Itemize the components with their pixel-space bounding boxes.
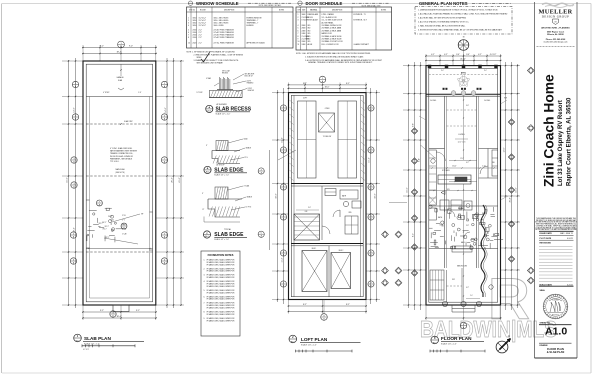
svg-text:1/2" EXP: 1/2" EXP bbox=[197, 92, 203, 94]
svg-text:2/0 PANEL SWING DOOR: 2/0 PANEL SWING DOOR bbox=[322, 24, 343, 27]
svg-text:mueller@muellerdesign.com: mueller@muellerdesign.com bbox=[544, 41, 568, 44]
svg-text:1: 1 bbox=[298, 14, 299, 16]
svg-text:BED 1: BED 1 bbox=[312, 248, 317, 250]
svg-text:BED 2: BED 2 bbox=[339, 250, 344, 252]
svg-text:ISSUE DATE: ISSUE DATE bbox=[540, 232, 553, 235]
svg-text:LOFT PLAN: LOFT PLAN bbox=[301, 337, 328, 342]
svg-text:MAIN SLAB: MAIN SLAB bbox=[115, 168, 125, 171]
svg-text:5. WALL INSULATION SHALL BE R: 5. WALL INSULATION SHALL BE R-13 IN EXTE… bbox=[418, 24, 465, 27]
svg-text:2: 2 bbox=[298, 17, 299, 19]
svg-text:6: 6 bbox=[298, 30, 299, 32]
svg-text:A1.0: A1.0 bbox=[206, 171, 210, 174]
svg-text:IF SAND DOES, SLAB LOWER FOR: IF SAND DOES, SLAB LOWER FOR bbox=[207, 319, 236, 322]
svg-text:FOUNDATION NOTES: FOUNDATION NOTES bbox=[208, 254, 234, 257]
svg-text:Zini Coach Home: Zini Coach Home bbox=[542, 74, 557, 187]
svg-text:IF SAND DOES, SLAB LOWER FOR: IF SAND DOES, SLAB LOWER FOR bbox=[207, 285, 236, 288]
svg-text:FLOOR PLAN: FLOOR PLAN bbox=[441, 336, 472, 341]
svg-text:SCALE: 1/2" = 1'-0": SCALE: 1/2" = 1'-0" bbox=[214, 173, 229, 176]
svg-text:BEDROOM: BEDROOM bbox=[457, 266, 467, 268]
svg-text:TYP. U.N.O.: TYP. U.N.O. bbox=[110, 161, 120, 163]
svg-text:SLAB EDGE: SLAB EDGE bbox=[214, 232, 244, 238]
svg-text:IF SAND DOES, SLAB LOWER FOR: IF SAND DOES, SLAB LOWER FOR bbox=[207, 263, 236, 266]
svg-text:3'-8": 3'-8" bbox=[466, 225, 469, 227]
svg-text:SHEET NO.: SHEET NO. bbox=[540, 322, 552, 324]
svg-text:ALUM: ALUM bbox=[308, 43, 313, 46]
svg-text:8'-2": 8'-2" bbox=[413, 233, 415, 237]
svg-text:26'-4": 26'-4" bbox=[172, 177, 174, 182]
svg-text:IF SAND DOES, SLAB LOWER FOR: IF SAND DOES, SLAB LOWER FOR bbox=[207, 291, 236, 294]
svg-text:9'-0": 9'-0" bbox=[129, 46, 133, 48]
svg-text:4'-2": 4'-2" bbox=[478, 54, 482, 56]
svg-text:4" STEP: 4" STEP bbox=[103, 92, 110, 94]
svg-text:14'-6": 14'-6" bbox=[74, 107, 76, 112]
svg-text:3'-6": 3'-6" bbox=[466, 54, 470, 56]
svg-text:REVISIONS: REVISIONS bbox=[540, 242, 552, 244]
svg-text:2" V: 2" V bbox=[122, 220, 125, 222]
svg-text:NOTE: 1. VIF WINDOW LIST APP: NOTE: 1. VIF WINDOW LIST APPROXIMATE, VI… bbox=[187, 50, 236, 53]
svg-text:4: 4 bbox=[298, 25, 299, 27]
svg-text:IF SAND DOES, SLAB LOWER FOR: IF SAND DOES, SLAB LOWER FOR bbox=[207, 276, 236, 279]
svg-text:11'-4": 11'-4" bbox=[282, 257, 284, 262]
svg-text:2068: 2068 bbox=[302, 41, 306, 43]
svg-text:9'-2": 9'-2" bbox=[100, 46, 104, 48]
svg-text:DESCRIPTION: DESCRIPTION bbox=[332, 9, 342, 11]
svg-text:4. ALL STUD SPACING, SYSTEMS: 4. ALL STUD SPACING, SYSTEMS AND SHEATHG… bbox=[418, 20, 470, 23]
svg-text:VAPOR BARRIER OVER TERMITE: VAPOR BARRIER OVER TERMITE bbox=[110, 150, 138, 153]
svg-text:6. EXTERIOR EXPOSED WALL SHEA: 6. EXTERIOR EXPOSED WALL SHEATHING SHALL… bbox=[418, 28, 503, 31]
svg-text:ATTIC: ATTIC bbox=[461, 72, 467, 75]
svg-text:10: 10 bbox=[298, 41, 300, 43]
svg-text:GENERAL. TRIM AND LOCATION BY: GENERAL. TRIM AND LOCATION BY OWNER. SET… bbox=[308, 61, 373, 64]
svg-text:3'-0": 3'-0" bbox=[308, 207, 311, 209]
svg-text:VINYL/ALUM: VINYL/ALUM bbox=[308, 19, 319, 22]
svg-text:24"x30" FIXED TRANSOM: 24"x30" FIXED TRANSOM bbox=[214, 36, 235, 39]
svg-text:PLOT DATE: PLOT DATE bbox=[540, 237, 552, 240]
svg-text:2/0 PANEL & FACE SLIDE: 2/0 PANEL & FACE SLIDE bbox=[322, 38, 343, 41]
svg-text:8: 8 bbox=[188, 37, 189, 39]
svg-text:WOOD: WOOD bbox=[308, 17, 314, 19]
svg-text:2/0 PANEL & FACE JAMB: 2/0 PANEL & FACE JAMB bbox=[322, 27, 342, 30]
svg-text:8: 8 bbox=[298, 36, 299, 38]
svg-text:2. ALL WALLS ALL PLATES AS FR: 2. ALL WALLS ALL PLATES AS FRAMED IN CON… bbox=[418, 12, 508, 15]
svg-text:SZ: SZ bbox=[193, 9, 195, 11]
svg-text:9'-2": 9'-2" bbox=[100, 310, 104, 312]
svg-text:11'-2": 11'-2" bbox=[460, 158, 464, 160]
svg-text:ACTIVE PANEL: ACTIVE PANEL bbox=[322, 21, 334, 24]
svg-text:41'-0": 41'-0" bbox=[407, 187, 409, 192]
svg-text:SCALE: 1/4" = 1'-0": SCALE: 1/4" = 1'-0" bbox=[441, 342, 457, 345]
svg-text:FULL LOUVER DOOR: FULL LOUVER DOOR bbox=[322, 44, 340, 46]
svg-text:DESIGN GROUP: DESIGN GROUP bbox=[542, 15, 569, 19]
svg-text:2468: 2468 bbox=[302, 44, 306, 46]
svg-text:6'-2": 6'-2" bbox=[466, 287, 469, 289]
svg-text:NOTES: NOTES bbox=[279, 9, 284, 11]
svg-text:4'-2 1/2": 4'-2 1/2" bbox=[490, 54, 497, 56]
svg-text:8'-2": 8'-2" bbox=[303, 83, 307, 85]
svg-text:6.24.21: 6.24.21 bbox=[567, 284, 573, 286]
svg-text:2/0 PANEL POCKET DOOR: 2/0 PANEL POCKET DOOR bbox=[322, 40, 344, 43]
svg-text:FIBERMESH - SEE DETAILS: FIBERMESH - SEE DETAILS bbox=[110, 157, 133, 160]
svg-text:3040 - FIXED: 3040 - FIXED bbox=[214, 25, 225, 27]
svg-text:2x4 PL: 2x4 PL bbox=[247, 81, 252, 83]
svg-text:3050: 3050 bbox=[193, 25, 197, 27]
svg-text:10'-10": 10'-10" bbox=[452, 166, 457, 168]
svg-text:1. DIMENSIONS ARE FROM SLAB E: 1. DIMENSIONS ARE FROM SLAB EDGE TO FACE… bbox=[418, 8, 498, 11]
svg-text:GARAGE: GARAGE bbox=[116, 76, 124, 79]
svg-text:16'-5": 16'-5" bbox=[325, 87, 330, 89]
svg-text:SLAB PLAN: SLAB PLAN bbox=[84, 336, 111, 341]
svg-text:EGRESS: EGRESS bbox=[247, 25, 255, 27]
svg-text:2030: 2030 bbox=[193, 37, 197, 39]
svg-text:2468: 2468 bbox=[302, 30, 306, 32]
svg-text:6'-4": 6'-4" bbox=[419, 158, 421, 162]
svg-text:6 PNL - RAISED: 6 PNL - RAISED bbox=[322, 13, 335, 16]
svg-text:KITCHEN: KITCHEN bbox=[442, 170, 450, 172]
svg-text:ROUGH: ROUGH bbox=[200, 9, 206, 11]
svg-text:Elberta, AL 36530: Elberta, AL 36530 bbox=[547, 33, 564, 36]
svg-text:9'-2": 9'-2" bbox=[136, 310, 140, 312]
svg-text:WH: WH bbox=[492, 162, 495, 164]
svg-text:DOOR SCHEDULE: DOOR SCHEDULE bbox=[306, 1, 343, 6]
svg-text:APPROVED BY GLASS: APPROVED BY GLASS bbox=[247, 42, 266, 45]
svg-text:9: 9 bbox=[298, 39, 299, 41]
svg-text:4'-2": 4'-2" bbox=[466, 162, 469, 164]
svg-text:M: M bbox=[555, 21, 557, 23]
svg-text:SCALE: 1/2" = 1'-0": SCALE: 1/2" = 1'-0" bbox=[214, 238, 229, 241]
svg-text:11: 11 bbox=[298, 44, 300, 46]
svg-text:WINDOW SCHEDULE: WINDOW SCHEDULE bbox=[196, 1, 239, 6]
svg-text:NOTE: 1. ALL EXTERIOR DOOR H: NOTE: 1. ALL EXTERIOR DOOR HARDWARE SHAL… bbox=[296, 52, 371, 55]
svg-text:BARN DOOR: BARN DOOR bbox=[322, 32, 333, 35]
svg-text:A1.0: A1.0 bbox=[76, 339, 80, 342]
svg-text:15'-2": 15'-2" bbox=[369, 157, 371, 162]
svg-text:IF SAND DOES, SLAB LOWER FOR: IF SAND DOES, SLAB LOWER FOR bbox=[207, 270, 236, 273]
svg-text:NOTES: NOTES bbox=[381, 9, 386, 11]
svg-text:24" SQ. FIXED TRANSOM: 24" SQ. FIXED TRANSOM bbox=[214, 42, 235, 45]
svg-text:2. GLAZING IN EXTERIOR DOORS: 2. GLAZING IN EXTERIOR DOORS SHALL BE IN… bbox=[305, 56, 364, 59]
svg-text:3. ALL HDRS WALL VIF. SEE SPE: 3. ALL HDRS WALL VIF. SEE SPECIFD NOTES … bbox=[418, 16, 467, 19]
svg-text:LIVING: LIVING bbox=[458, 134, 465, 136]
svg-text:R: R bbox=[488, 267, 530, 332]
svg-text:8'-2": 8'-2" bbox=[346, 83, 350, 85]
svg-text:3068: 3068 bbox=[302, 14, 306, 16]
svg-text:DRAWN: DRAWN bbox=[540, 344, 548, 347]
svg-text:BUILD DATE: BUILD DATE bbox=[540, 283, 553, 286]
svg-text:SCALE: 1/4" = 1'-0": SCALE: 1/4" = 1'-0" bbox=[84, 342, 100, 345]
svg-text:14'-6": 14'-6" bbox=[165, 107, 167, 112]
svg-text:5909 Raptor Court: 5909 Raptor Court bbox=[547, 30, 565, 33]
svg-text:4'-2": 4'-2" bbox=[444, 54, 448, 56]
svg-text:WC 2": WC 2" bbox=[103, 228, 108, 230]
svg-text:2'-2": 2'-2" bbox=[199, 37, 203, 39]
svg-text:2'-2": 2'-2" bbox=[199, 43, 203, 45]
svg-text:SEAL: SEAL bbox=[540, 289, 546, 292]
svg-text:LOFT: LOFT bbox=[303, 98, 307, 100]
svg-text:A1.0: A1.0 bbox=[545, 326, 567, 338]
svg-text:A1.0: A1.0 bbox=[433, 341, 437, 344]
svg-text:IF SAND DOES, SLAB LOWER FOR: IF SAND DOES, SLAB LOWER FOR bbox=[207, 313, 236, 316]
svg-text:7: 7 bbox=[298, 33, 299, 35]
svg-text:FIBERGLASS: FIBERGLASS bbox=[308, 13, 319, 16]
svg-text:2668: 2668 bbox=[302, 25, 306, 27]
svg-text:6.24.21: 6.24.21 bbox=[567, 238, 573, 240]
svg-text:2468: 2468 bbox=[302, 33, 306, 35]
svg-text:SCALE: 1/4" = 1'-0": SCALE: 1/4" = 1'-0" bbox=[301, 343, 317, 346]
svg-text:A1.0: A1.0 bbox=[208, 110, 212, 113]
svg-text:15'-2": 15'-2" bbox=[282, 137, 284, 142]
svg-text:SLAB RECESS: SLAB RECESS bbox=[216, 106, 252, 112]
svg-text:GENERAL PLAN NOTES: GENERAL PLAN NOTES bbox=[419, 1, 468, 6]
svg-text:4" CONC. SLAB OVER 6 MIL: 4" CONC. SLAB OVER 6 MIL bbox=[110, 147, 132, 150]
svg-text:9'-6": 9'-6" bbox=[466, 105, 469, 107]
svg-text:1/2 - GLASS DOOR: 1/2 - GLASS DOOR bbox=[322, 16, 338, 19]
svg-text:IF SAND DOES, SLAB LOWER FOR: IF SAND DOES, SLAB LOWER FOR bbox=[207, 307, 236, 310]
svg-text:GLASS/CONTRACT: GLASS/CONTRACT bbox=[354, 43, 369, 46]
svg-text:2/0 PANEL & FACE JAMB: 2/0 PANEL & FACE JAMB bbox=[322, 29, 342, 32]
svg-text:18'-4": 18'-4" bbox=[116, 52, 121, 54]
svg-text:MAY / JUNE '21: MAY / JUNE '21 bbox=[560, 232, 573, 235]
svg-text:TREATED COMPACTED FILL,: TREATED COMPACTED FILL, bbox=[110, 152, 134, 155]
svg-text:12'-0" CLG: 12'-0" CLG bbox=[458, 142, 467, 144]
svg-text:WC 2": WC 2" bbox=[105, 226, 110, 228]
svg-text:4: 4 bbox=[188, 25, 189, 27]
svg-text:34'-6": 34'-6" bbox=[276, 193, 278, 198]
svg-text:Lot 33 Lake Osprey RV R: Lot 33 Lake Osprey RV Resort bbox=[558, 100, 564, 186]
svg-text:18'-4": 18'-4" bbox=[116, 316, 121, 318]
svg-text:8'-2": 8'-2" bbox=[346, 304, 350, 306]
svg-text:EXTERIOR - W, T: EXTERIOR - W, T bbox=[354, 20, 368, 22]
svg-text:SCALE: 1/2" = 1'-0": SCALE: 1/2" = 1'-0" bbox=[216, 112, 231, 115]
svg-text:8'-2": 8'-2" bbox=[303, 304, 307, 306]
svg-text:IF SAND DOES, SLAB LOWER FOR: IF SAND DOES, SLAB LOWER FOR bbox=[207, 298, 236, 301]
svg-text:3: 3 bbox=[298, 20, 299, 22]
svg-text:& SLAB PLAN: & SLAB PLAN bbox=[547, 350, 565, 354]
svg-text:41'-0": 41'-0" bbox=[67, 177, 69, 182]
svg-text:34'-6": 34'-6" bbox=[375, 193, 377, 198]
svg-text:WC 2": WC 2" bbox=[108, 216, 113, 218]
svg-text:5: 5 bbox=[298, 28, 299, 30]
svg-text:16" FTG: 16" FTG bbox=[246, 207, 252, 209]
svg-text:A1.0: A1.0 bbox=[291, 340, 295, 343]
svg-text:Raptor Court Elberta, AL 3: Raptor Court Elberta, AL 36530 bbox=[567, 97, 573, 186]
svg-text:EXTERIOR - T1: EXTERIOR - T1 bbox=[354, 14, 366, 16]
svg-text:9'-8": 9'-8" bbox=[413, 123, 415, 127]
svg-text:DESCRIPTION: DESCRIPTION bbox=[224, 9, 234, 11]
svg-text:TO BELOW: TO BELOW bbox=[323, 136, 332, 138]
svg-text:41'-0": 41'-0" bbox=[516, 187, 518, 192]
svg-text:TYPICAL: TYPICAL bbox=[224, 228, 231, 231]
svg-text:1/2 - 3L SMS SLIDE DOOR: 1/2 - 3L SMS SLIDE DOOR bbox=[322, 20, 343, 22]
svg-text:WC 2": WC 2" bbox=[102, 222, 107, 224]
svg-text:10: 10 bbox=[188, 43, 190, 45]
svg-text:2020: 2020 bbox=[193, 43, 197, 45]
svg-text:41'-0": 41'-0" bbox=[179, 177, 181, 182]
svg-text:RECESS: RECESS bbox=[222, 73, 228, 75]
svg-text:3'-2"x5'-2": 3'-2"x5'-2" bbox=[199, 25, 207, 27]
svg-text:2'-10": 2'-10" bbox=[482, 166, 486, 168]
svg-text:4'-2": 4'-2" bbox=[431, 54, 435, 56]
svg-text:0 2' 4' 8': 0 2' 4' 8' bbox=[83, 349, 89, 351]
svg-text:12'-6": 12'-6" bbox=[504, 147, 506, 152]
svg-text:A1.0: A1.0 bbox=[205, 235, 209, 238]
svg-text:HDR: HDR bbox=[504, 98, 507, 100]
svg-text:2/0 PANEL & FACE SLIDE: 2/0 PANEL & FACE SLIDE bbox=[322, 35, 343, 38]
svg-text:24'-10": 24'-10" bbox=[460, 59, 466, 61]
svg-text:VIF: VIF bbox=[141, 214, 143, 216]
svg-text:2668: 2668 bbox=[302, 28, 306, 30]
svg-text:(SEE NOTE): (SEE NOTE) bbox=[115, 172, 125, 174]
svg-text:ARCHITECTURE + PLANNING: ARCHITECTURE + PLANNING bbox=[541, 27, 570, 30]
svg-text:SIZES: SIZES bbox=[197, 57, 203, 59]
svg-text:SLAB EDGE: SLAB EDGE bbox=[214, 167, 244, 173]
svg-text:SEE INSULATED UNIT IN FRAME: SEE INSULATED UNIT IN FRAME bbox=[197, 62, 224, 65]
svg-text:SIZE: SIZE bbox=[302, 9, 305, 11]
svg-text:1'-4": 1'-4" bbox=[138, 92, 142, 94]
svg-text:3'-6": 3'-6" bbox=[456, 54, 460, 56]
svg-text:26'-4": 26'-4" bbox=[510, 197, 512, 202]
